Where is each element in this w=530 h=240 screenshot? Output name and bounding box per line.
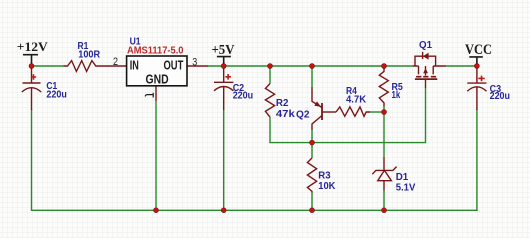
svg-text:100R: 100R — [78, 48, 100, 60]
svg-text:IN: IN — [130, 59, 139, 73]
svg-text:+5V: +5V — [212, 43, 235, 58]
svg-text:5.1V: 5.1V — [396, 182, 416, 194]
svg-text:1k: 1k — [392, 89, 401, 101]
svg-text:VCC: VCC — [465, 42, 492, 58]
svg-text:+12V: +12V — [17, 39, 49, 54]
svg-text:220u: 220u — [490, 90, 510, 102]
svg-text:3: 3 — [192, 57, 197, 69]
svg-text:4.7K: 4.7K — [346, 94, 366, 106]
svg-text:AMS1117-5.0: AMS1117-5.0 — [127, 44, 184, 56]
svg-text:OUT: OUT — [164, 59, 184, 73]
svg-text:2: 2 — [113, 56, 118, 68]
svg-text:Q1: Q1 — [419, 39, 432, 51]
svg-text:220u: 220u — [46, 89, 66, 101]
svg-text:GND: GND — [146, 73, 169, 87]
svg-text:47k: 47k — [276, 108, 295, 120]
svg-text:220u: 220u — [233, 89, 253, 101]
svg-text:10K: 10K — [318, 180, 335, 192]
svg-text:Q2: Q2 — [296, 109, 310, 121]
